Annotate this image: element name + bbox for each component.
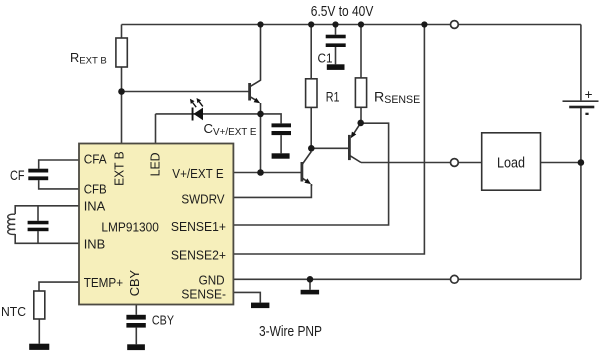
svg-text:NTC: NTC: [1, 304, 26, 319]
wire bottom ground rail: [234, 278, 581, 280]
ground for CV+/EXT E: [272, 153, 290, 158]
svg-text:V+/EXT E: V+/EXT E: [172, 166, 223, 181]
resistor RSENSE: [355, 78, 366, 107]
wire Q1 base: [122, 91, 250, 93]
svg-text:INA: INA: [84, 199, 106, 214]
wire Q3 collector to Load: [361, 162, 482, 164]
wire CV+/EXTE cap to ground stub: [280, 135, 282, 153]
wire V+/EXT E pin to Q2 base: [234, 172, 302, 174]
wire REXTB bottom stub: [121, 67, 123, 92]
resistor REXT B: [116, 38, 127, 67]
capacitor input filter: [28, 221, 49, 231]
junction node dots: [118, 21, 584, 282]
wire REXTB top stub: [121, 25, 123, 39]
svg-text:CBY: CBY: [127, 270, 142, 297]
capacitor C1: [326, 35, 346, 47]
svg-text:SENSE-: SENSE-: [181, 287, 226, 302]
transistor Q1: [250, 25, 261, 114]
wire Q2 collector to node: [310, 148, 312, 151]
ground for GND rail: [301, 290, 320, 295]
ground for C1: [327, 64, 345, 70]
wire RSENSE top stub: [360, 25, 362, 78]
capacitor CF: [28, 169, 48, 181]
wire CBY ground stub: [135, 328, 137, 345]
svg-text:Load: Load: [497, 155, 525, 171]
svg-text:CF: CF: [10, 168, 25, 183]
wire input cap stub bottom: [37, 231, 39, 243]
wire SENSE1+ routing: [234, 123, 389, 225]
svg-text:GND: GND: [199, 273, 225, 288]
wire top supply rail: [122, 24, 581, 26]
wire CBY top stub: [135, 305, 137, 315]
IC U1 LMP91300 body: [79, 144, 233, 305]
capacitor CBY: [126, 315, 145, 328]
wire NTC to ground: [38, 319, 40, 344]
ground for CBY: [127, 344, 145, 350]
wire INA: [15, 206, 79, 214]
wire SENSE2+ routing: [234, 25, 425, 255]
wire TEMP+: [39, 282, 79, 291]
wire Load to battery: [541, 162, 581, 164]
wire node to V+/EXT E vertical: [260, 114, 262, 173]
wire LED row: [156, 113, 261, 115]
battery B1: [563, 87, 599, 115]
wire EXT B pin vertical: [121, 92, 123, 145]
wire RSENSE bottom stub: [360, 107, 362, 123]
svg-text:C1: C1: [318, 51, 333, 66]
svg-text:6.5V to 40V: 6.5V to 40V: [311, 4, 374, 20]
svg-text:+: +: [585, 87, 593, 102]
wire CFA: [39, 160, 79, 169]
wire GND ground stub: [309, 279, 311, 290]
wire battery bottom vertical: [580, 108, 582, 279]
ground for NTC: [29, 344, 49, 350]
svg-text:EXT B: EXT B: [112, 151, 127, 186]
svg-text:CFB: CFB: [84, 181, 107, 196]
svg-text:SWDRV: SWDRV: [181, 192, 224, 207]
svg-text:LED: LED: [147, 152, 162, 176]
wire SENSE- to ground: [234, 292, 261, 302]
capacitor CV+/EXT E: [272, 123, 292, 135]
wire node to Q3 base: [311, 147, 349, 149]
wire R1 top stub: [310, 25, 312, 79]
wire R1 bottom stub: [310, 107, 312, 148]
svg-text:SENSE2+: SENSE2+: [171, 248, 226, 263]
svg-text:INB: INB: [84, 236, 106, 251]
open connector circles: [451, 21, 459, 284]
load box: [482, 133, 541, 190]
wire C1 top stub: [335, 25, 337, 35]
ground for SENSE-: [251, 303, 269, 309]
svg-text:TEMP+: TEMP+: [84, 275, 124, 290]
wire CFB: [39, 180, 79, 189]
LED D1: [190, 98, 203, 121]
wire SWDRV pin: [234, 184, 312, 197]
inductor L1: [8, 214, 16, 234]
wire C1 ground stub: [335, 47, 337, 64]
wire battery right vertical: [580, 25, 582, 101]
svg-text:SENSE1+: SENSE1+: [171, 219, 226, 234]
wire input cap stub top: [37, 206, 39, 221]
transistor Q2: [302, 152, 312, 187]
svg-text:CFA: CFA: [84, 152, 107, 167]
wire LED pin vertical: [155, 114, 157, 144]
transistor Q3 PNP: [349, 123, 361, 163]
resistor R1: [306, 79, 317, 108]
wire INB: [15, 234, 79, 243]
resistor NTC: [34, 291, 45, 319]
svg-text:3-Wire PNP: 3-Wire PNP: [259, 324, 322, 340]
svg-text:LMP91300: LMP91300: [101, 220, 158, 235]
svg-text:CBY: CBY: [152, 313, 174, 328]
svg-text:R1: R1: [326, 90, 340, 105]
wire CV+/EXTE cap stub: [261, 114, 282, 124]
